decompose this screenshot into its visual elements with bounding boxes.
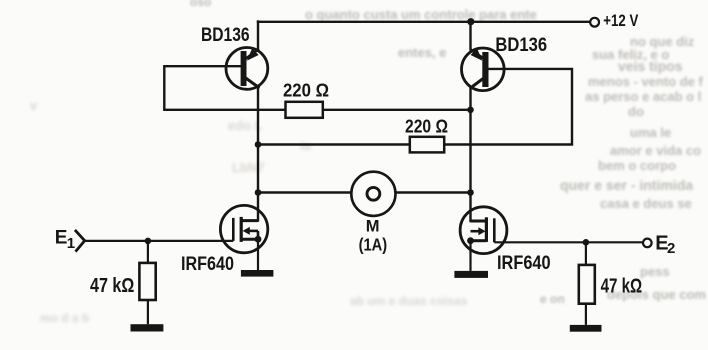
ground (Q4 source) (454, 271, 488, 278)
wire Q3 source to ground (257, 239, 259, 270)
motor M (351, 172, 395, 216)
ground (R4) (570, 325, 602, 332)
wire node A to motor left terminal (258, 191, 352, 193)
svg-text:v: v (30, 98, 38, 113)
wire motor right terminal to node B (395, 191, 470, 193)
svg-text:entes, e: entes, e (398, 45, 446, 60)
svg-text:47 kΩ: 47 kΩ (601, 275, 643, 297)
wire R2 to Q2 base feedback loop (444, 69, 572, 145)
svg-text:quer e ser - intimida: quer e ser - intimida (560, 177, 693, 193)
wire R1 to node B (323, 109, 471, 111)
junction node A / motor left (255, 189, 262, 196)
svg-text:47 kΩ: 47 kΩ (90, 275, 134, 297)
svg-text:1: 1 (67, 235, 75, 252)
svg-text:(1A): (1A) (359, 235, 388, 255)
wire R3 bottom (147, 300, 149, 324)
svg-text:uma le: uma le (630, 125, 671, 140)
wire +12V supply rail (258, 21, 590, 23)
resistor R3 47k (139, 263, 155, 300)
svg-text:pess: pess (640, 264, 670, 279)
junction node A (Q1 collector / R2) (255, 141, 262, 148)
ground (R3) (131, 324, 164, 331)
wire R4 top (585, 242, 587, 265)
terminal E2 (643, 239, 652, 248)
wire Q4 gate to E2 (494, 241, 643, 243)
svg-text:menos - vento de f: menos - vento de f (588, 74, 704, 89)
wire E1 to Q3 gate (85, 240, 234, 242)
wire Q1 base feedback loop to R1 (164, 66, 285, 110)
wire Q2 emitter to rail (469, 22, 471, 49)
junction node B / motor right (467, 189, 474, 196)
svg-text:o quanto custa um controle par: o quanto custa um controle para ente (305, 7, 537, 22)
svg-text:do: do (628, 104, 644, 119)
wire Q1 emitter to rail (257, 22, 259, 51)
ground (Q3 source) (241, 270, 274, 277)
svg-text:IRF640: IRF640 (181, 254, 234, 275)
resistor R2 220 ohm (410, 137, 444, 153)
svg-text:220 Ω: 220 Ω (283, 80, 329, 100)
svg-text:ab um e duas coisas: ab um e duas coisas (350, 294, 468, 308)
svg-text:oso: oso (190, 0, 211, 9)
svg-text:mo d a b: mo d a b (40, 311, 89, 325)
MOSFET Q4 IRF640 (right, N-channel, mirrored) (460, 207, 507, 254)
resistor R4 47k (579, 265, 595, 304)
wire Q2 collector down to node B / Q4 drain (469, 89, 471, 221)
faint page bleed-through (decorative) (190, 0, 708, 306)
svg-text:BD136: BD136 (201, 24, 250, 46)
terminal +12V (590, 18, 599, 27)
svg-text:amor e vida co: amor e vida co (610, 143, 701, 158)
svg-text:BD136: BD136 (495, 34, 547, 56)
junction rail / Q2 emitter (467, 18, 474, 25)
svg-text:+12 V: +12 V (603, 11, 639, 30)
input terminal E1 (chevron) (75, 230, 85, 252)
wire Q4 source to ground (469, 241, 471, 271)
svg-text:e on: e on (540, 292, 565, 306)
svg-text:casa e deus se: casa e deus se (600, 196, 692, 211)
svg-text:veis tipos: veis tipos (618, 58, 683, 74)
svg-text:M: M (366, 217, 380, 235)
transistor Q2 BD136 (right, PNP) (462, 48, 505, 91)
svg-text:as perso e acab o l: as perso e acab o l (585, 89, 701, 104)
svg-text:E: E (55, 228, 68, 249)
resistor R1 220 ohm (286, 102, 323, 118)
svg-text:bem o corpo: bem o corpo (598, 158, 676, 173)
MOSFET Q3 IRF640 (left, N-channel) (220, 205, 267, 252)
wire node A to R2 (258, 143, 410, 145)
junction E1 / R3 (145, 238, 152, 245)
svg-text:220 Ω: 220 Ω (405, 116, 448, 136)
svg-text:LbN7: LbN7 (232, 160, 265, 175)
wire R4 bottom (585, 304, 587, 325)
svg-text:IRF640: IRF640 (497, 252, 551, 274)
junction E2 / R4 (583, 239, 590, 246)
junction node B (Q2 collector / R1) (467, 107, 474, 114)
wire Q1 collector down to node A / Q3 drain (257, 89, 259, 221)
transistor Q1 BD136 (left, PNP) (226, 48, 268, 90)
wire R3 top (147, 241, 149, 263)
svg-text:2: 2 (667, 240, 675, 257)
